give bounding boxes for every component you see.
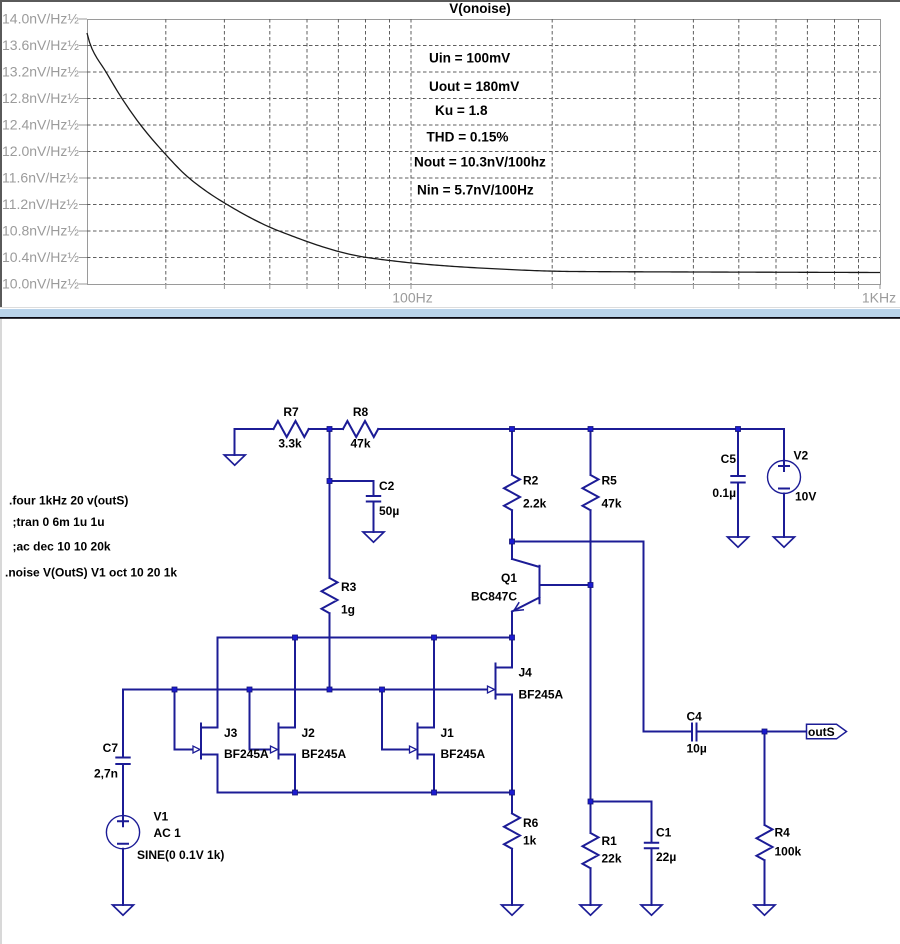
svg-text:22µ: 22µ	[656, 850, 676, 864]
svg-text:J2: J2	[302, 726, 316, 740]
svg-text:;tran 0 6m 1u 1u: ;tran 0 6m 1u 1u	[13, 515, 105, 529]
svg-text:outS: outS	[808, 725, 835, 739]
svg-text:R8: R8	[353, 405, 369, 419]
svg-text:V2: V2	[794, 449, 809, 463]
svg-text:R3: R3	[341, 580, 357, 594]
svg-text:Q1: Q1	[501, 571, 517, 585]
svg-text:V(onoise): V(onoise)	[449, 1, 511, 16]
svg-text:Nout = 10.3nV/100hz: Nout = 10.3nV/100hz	[414, 155, 546, 170]
svg-text:11.6nV/Hz½: 11.6nV/Hz½	[2, 169, 78, 185]
svg-text:BC847C: BC847C	[471, 590, 517, 604]
svg-text:10µ: 10µ	[687, 742, 707, 756]
svg-text:1KHz: 1KHz	[862, 290, 896, 306]
svg-text:.noise V(OutS) V1 oct 10 20 1k: .noise V(OutS) V1 oct 10 20 1k	[5, 566, 177, 580]
svg-text:J1: J1	[441, 726, 455, 740]
svg-text:100k: 100k	[775, 845, 802, 859]
svg-text:;ac dec 10 10 20k: ;ac dec 10 10 20k	[13, 540, 111, 554]
svg-text:BF245A: BF245A	[224, 747, 269, 761]
svg-text:BF245A: BF245A	[302, 747, 347, 761]
svg-text:Uin = 100mV: Uin = 100mV	[429, 51, 510, 66]
svg-text:0.1µ: 0.1µ	[712, 486, 736, 500]
svg-text:J3: J3	[224, 726, 238, 740]
svg-text:100Hz: 100Hz	[392, 290, 432, 306]
svg-text:10.4nV/Hz½: 10.4nV/Hz½	[2, 249, 79, 265]
svg-text:1g: 1g	[341, 603, 355, 617]
svg-text:R2: R2	[523, 474, 539, 488]
svg-text:R1: R1	[602, 834, 618, 848]
svg-text:2.2k: 2.2k	[523, 497, 547, 511]
svg-text:13.2nV/Hz½: 13.2nV/Hz½	[2, 63, 79, 79]
svg-text:R4: R4	[775, 826, 791, 840]
svg-text:10V: 10V	[795, 490, 816, 504]
svg-text:22k: 22k	[602, 852, 622, 866]
svg-text:47k: 47k	[602, 497, 622, 511]
svg-text:BF245A: BF245A	[441, 747, 486, 761]
svg-text:SINE(0 0.1V 1k): SINE(0 0.1V 1k)	[137, 848, 224, 862]
svg-text:11.2nV/Hz½: 11.2nV/Hz½	[2, 196, 78, 212]
svg-text:C7: C7	[103, 741, 119, 755]
svg-text:Ku = 1.8: Ku = 1.8	[435, 103, 488, 118]
svg-text:12.4nV/Hz½: 12.4nV/Hz½	[2, 116, 79, 132]
svg-text:50µ: 50µ	[379, 504, 399, 518]
svg-text:3.3k: 3.3k	[278, 437, 302, 451]
svg-text:C1: C1	[656, 826, 672, 840]
svg-text:R5: R5	[602, 474, 618, 488]
svg-text:10.8nV/Hz½: 10.8nV/Hz½	[2, 222, 79, 238]
svg-text:C4: C4	[687, 710, 703, 724]
svg-text:J4: J4	[519, 666, 533, 680]
svg-text:THD = 0.15%: THD = 0.15%	[427, 130, 509, 145]
svg-text:2,7n: 2,7n	[94, 767, 118, 781]
svg-text:12.0nV/Hz½: 12.0nV/Hz½	[2, 143, 79, 159]
svg-text:C5: C5	[721, 452, 737, 466]
svg-text:V1: V1	[154, 810, 169, 824]
svg-text:14.0nV/Hz½: 14.0nV/Hz½	[2, 10, 79, 26]
svg-text:AC 1: AC 1	[154, 826, 182, 840]
svg-text:13.6nV/Hz½: 13.6nV/Hz½	[2, 37, 79, 53]
svg-text:R7: R7	[283, 405, 299, 419]
svg-text:47k: 47k	[350, 437, 370, 451]
svg-text:BF245A: BF245A	[519, 688, 564, 702]
svg-text:Uout = 180mV: Uout = 180mV	[429, 79, 519, 94]
svg-text:1k: 1k	[523, 834, 537, 848]
svg-text:12.8nV/Hz½: 12.8nV/Hz½	[2, 90, 79, 106]
svg-text:Nin = 5.7nV/100Hz: Nin = 5.7nV/100Hz	[417, 183, 534, 198]
svg-text:R6: R6	[523, 816, 539, 830]
svg-text:C2: C2	[379, 479, 395, 493]
svg-text:.four 1kHz 20 v(outS): .four 1kHz 20 v(outS)	[9, 494, 128, 508]
svg-text:10.0nV/Hz½: 10.0nV/Hz½	[2, 275, 79, 291]
